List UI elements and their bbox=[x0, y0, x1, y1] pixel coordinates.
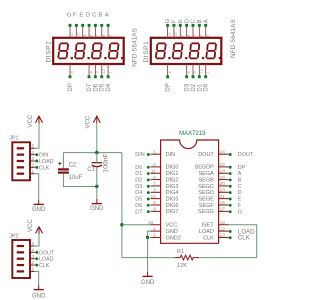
svg-text:JP1: JP1 bbox=[9, 136, 18, 142]
svg-text:12: 12 bbox=[200, 69, 204, 73]
svg-text:SEGE: SEGE bbox=[199, 196, 215, 202]
svg-text:SEGB: SEGB bbox=[199, 177, 215, 183]
svg-text:8: 8 bbox=[187, 71, 191, 73]
wire GND junction down to ground bbox=[147, 237, 149, 271]
pin 23 of MAX7219 (stub, dot, number, net label D) bbox=[219, 188, 242, 197]
svg-text:D4: D4 bbox=[106, 83, 112, 91]
pin 4 GND of MAX7219 (stub and number) bbox=[151, 226, 161, 232]
svg-text:100nF: 100nF bbox=[102, 153, 109, 172]
svg-text:D1: D1 bbox=[135, 171, 142, 177]
svg-text:8: 8 bbox=[89, 34, 93, 36]
DISP1 segment pin F (wire, pad, net label F, pin 10) bbox=[172, 19, 179, 38]
svg-text:1: 1 bbox=[32, 267, 35, 273]
svg-text:5: 5 bbox=[206, 34, 210, 36]
7-segment display DISP1 bbox=[151, 38, 222, 64]
svg-text:15: 15 bbox=[220, 200, 226, 206]
svg-text:1: 1 bbox=[206, 71, 210, 73]
DISP2 segment pin G (wire, pad, net label G, pin 11) bbox=[67, 12, 75, 37]
node LOAD at JP2 (wire stub, dot, net label) bbox=[35, 257, 54, 263]
svg-text:VCC: VCC bbox=[166, 223, 178, 229]
svg-text:E: E bbox=[178, 19, 184, 23]
svg-text:5: 5 bbox=[32, 241, 35, 247]
7-segment display DISP2 bbox=[53, 38, 124, 64]
svg-text:B: B bbox=[98, 12, 102, 18]
svg-text:B: B bbox=[197, 19, 203, 23]
svg-text:D6: D6 bbox=[93, 83, 99, 91]
svg-text:D5: D5 bbox=[100, 83, 106, 91]
svg-text:4: 4 bbox=[153, 226, 156, 232]
svg-text:DOUT: DOUT bbox=[39, 250, 55, 256]
svg-text:DISP1: DISP1 bbox=[143, 41, 150, 63]
DISP2 pin DP (wire, pad, net label DP, pin 6) bbox=[68, 64, 74, 92]
wire C2 top lead bbox=[62, 153, 64, 169]
wire C1 bottom lead bbox=[96, 167, 98, 186]
pin 12 LOAD of MAX7219 (stub, dot, number, net label LOAD) bbox=[219, 226, 256, 235]
svg-text:1: 1 bbox=[153, 149, 156, 155]
MAX7219 left pin names (DIN DIG0-DIG7 VCC GND GND2) bbox=[166, 152, 181, 241]
svg-text:2: 2 bbox=[153, 162, 156, 168]
power VCC (above JP2) bbox=[28, 219, 43, 234]
pin 13 CLK of MAX7219 (stub, dot, number, net label CLK) bbox=[219, 233, 251, 242]
DISP2 segment pin C (wire, pad, net label C, pin 7) bbox=[92, 12, 100, 37]
svg-text:1: 1 bbox=[32, 169, 35, 175]
pin 15 of MAX7219 (stub, dot, number, net label F) bbox=[219, 200, 242, 209]
pin 20 of MAX7219 (stub, dot, number, net label C) bbox=[219, 181, 242, 190]
svg-text:C2: C2 bbox=[69, 163, 77, 169]
DISP1 pin D2 (wire, pad, net label D2, pin 9) bbox=[191, 64, 197, 92]
svg-text:6: 6 bbox=[200, 34, 204, 36]
svg-text:CLK: CLK bbox=[203, 235, 214, 241]
pin 11 D1 of MAX7219 (stub, dot, number, net label D1) bbox=[135, 168, 160, 177]
svg-text:23: 23 bbox=[220, 188, 226, 194]
svg-text:SEGDP: SEGDP bbox=[195, 165, 215, 171]
junction GND pins 4 and 9 bbox=[146, 236, 149, 239]
wire JP1 pin 1 to GND bbox=[35, 174, 39, 200]
svg-text:SEGD: SEGD bbox=[198, 190, 214, 196]
wire VCC rail right corner down to R1 row bbox=[121, 153, 123, 258]
svg-text:LOAD: LOAD bbox=[39, 257, 54, 263]
svg-text:DIN: DIN bbox=[166, 152, 176, 158]
svg-text:DIN: DIN bbox=[135, 152, 144, 158]
svg-text:VCC: VCC bbox=[28, 219, 34, 232]
svg-text:F: F bbox=[73, 12, 77, 18]
svg-text:C: C bbox=[191, 19, 197, 23]
capacitor C1 (top plate and curved plate) bbox=[92, 163, 103, 167]
svg-text:D6: D6 bbox=[135, 203, 142, 209]
svg-text:A: A bbox=[203, 19, 209, 23]
svg-text:5: 5 bbox=[108, 34, 112, 36]
svg-text:LOAD: LOAD bbox=[199, 229, 214, 235]
svg-text:DIG6: DIG6 bbox=[166, 203, 179, 209]
svg-text:16: 16 bbox=[220, 175, 226, 181]
svg-text:17: 17 bbox=[220, 207, 226, 213]
DISP1 segment pin G (wire, pad, net label G, pin 11) bbox=[165, 18, 172, 38]
svg-text:A: A bbox=[105, 12, 109, 18]
svg-text:21: 21 bbox=[220, 194, 226, 200]
DISP2 segment pin E (wire, pad, net label E, pin 9) bbox=[79, 12, 87, 37]
DISP1 segment pin E (wire, pad, net label E, pin 9) bbox=[178, 19, 185, 38]
svg-text:7: 7 bbox=[193, 34, 197, 36]
svg-text:DOUT: DOUT bbox=[198, 152, 214, 158]
svg-text:11: 11 bbox=[151, 168, 156, 174]
wire VCC rail (C2 to right corner) bbox=[63, 152, 122, 154]
svg-text:NFD-5641AS: NFD-5641AS bbox=[230, 19, 237, 58]
wire VCC to MAX7219 pin 19 bbox=[122, 224, 151, 226]
svg-text:DIG7: DIG7 bbox=[166, 209, 179, 215]
svg-text:DIG1: DIG1 bbox=[166, 171, 179, 177]
svg-text:DIG4: DIG4 bbox=[166, 190, 179, 196]
pin 19 VCC of MAX7219 (stub and number) bbox=[148, 220, 161, 226]
svg-text:D5: D5 bbox=[135, 197, 142, 203]
svg-text:LOAD: LOAD bbox=[39, 159, 54, 165]
pin 9 GND2 of MAX7219 (stub and number) bbox=[151, 233, 161, 239]
connector JP2 bbox=[12, 240, 30, 278]
svg-text:DP: DP bbox=[238, 165, 246, 171]
pin 7 D3 of MAX7219 (stub, dot, number, net label D3) bbox=[135, 181, 160, 190]
DISP2 segment pin D (wire, pad, net label D, pin 8) bbox=[86, 12, 94, 37]
wire GND node down bbox=[96, 187, 98, 200]
svg-text:10: 10 bbox=[77, 32, 81, 36]
svg-text:GND: GND bbox=[32, 207, 46, 213]
svg-text:D2: D2 bbox=[191, 83, 197, 91]
svg-text:D7: D7 bbox=[135, 209, 142, 215]
pin 6 D2 of MAX7219 (stub, dot, number, net label D2) bbox=[135, 175, 160, 184]
pin 5 D6 of MAX7219 (stub, dot, number, net label D6) bbox=[135, 200, 160, 209]
DISP2 pin D7 (wire, pad, net label D7, pin 8) bbox=[87, 64, 93, 92]
pin 1 DIN of MAX7219 (stub, dot, number, net label DIN) bbox=[135, 149, 160, 158]
capacitor C2 (polarized, plus sign) bbox=[58, 162, 69, 174]
JP2 pin stubs and pin numbers 5..1 bbox=[30, 241, 35, 272]
svg-text:9: 9 bbox=[153, 233, 156, 239]
svg-text:D3: D3 bbox=[185, 83, 191, 91]
svg-text:CLK: CLK bbox=[238, 235, 251, 242]
svg-text:A: A bbox=[238, 171, 242, 177]
MAX7219 right pin names (DOUT SEGDP SEGA-SEGG ISET LOAD CLK) bbox=[195, 152, 215, 241]
svg-text:6: 6 bbox=[153, 175, 156, 181]
junction VCC rail at C1 bbox=[95, 151, 98, 154]
node DOUT at JP2 (wire stub, dot, net label) bbox=[35, 250, 55, 256]
wire JP1 pin 5 to VCC bbox=[35, 123, 39, 148]
svg-text:6: 6 bbox=[70, 71, 74, 73]
ground GND (below C1) bbox=[90, 199, 104, 212]
svg-text:10: 10 bbox=[150, 194, 156, 200]
svg-text:2: 2 bbox=[32, 260, 35, 266]
DISP2 segment pin B (wire, pad, net label B, pin 6) bbox=[98, 12, 106, 37]
svg-text:G: G bbox=[165, 18, 171, 23]
svg-text:E: E bbox=[238, 197, 242, 203]
ground GND (below JP1) bbox=[32, 200, 46, 213]
svg-text:VCC: VCC bbox=[85, 115, 91, 128]
svg-text:9: 9 bbox=[83, 34, 87, 36]
svg-text:CLK: CLK bbox=[39, 165, 50, 171]
svg-text:12: 12 bbox=[102, 69, 106, 73]
svg-text:SEGF: SEGF bbox=[199, 203, 215, 209]
wire VCC symbol to rail bbox=[96, 123, 98, 152]
svg-text:12: 12 bbox=[220, 226, 226, 232]
power VCC (above JP1) bbox=[28, 114, 43, 127]
svg-text:11: 11 bbox=[168, 33, 172, 37]
svg-text:5: 5 bbox=[153, 200, 156, 206]
DISP1 segment pin C (wire, pad, net label C, pin 7) bbox=[191, 19, 198, 38]
svg-text:R1: R1 bbox=[177, 249, 184, 255]
svg-text:20: 20 bbox=[220, 181, 226, 187]
svg-text:D0: D0 bbox=[204, 83, 210, 91]
svg-text:22: 22 bbox=[220, 162, 226, 168]
node DIN at JP1 (wire stub, dot, net label) bbox=[35, 153, 49, 159]
wire JP2 pin 1 to GND bbox=[35, 271, 39, 285]
wire MAX7219 pin 4 to GND junction bbox=[148, 231, 151, 237]
svg-text:5: 5 bbox=[32, 143, 35, 149]
pin 16 of MAX7219 (stub, dot, number, net label B) bbox=[219, 175, 242, 184]
svg-text:8: 8 bbox=[89, 71, 93, 73]
svg-text:SEGA: SEGA bbox=[199, 171, 215, 177]
pin 24 of MAX7219 (stub, dot, number, net label DOUT) bbox=[219, 149, 254, 158]
svg-text:6: 6 bbox=[102, 34, 106, 36]
svg-text:C: C bbox=[92, 12, 96, 18]
svg-text:SEGG: SEGG bbox=[198, 209, 214, 215]
svg-text:8: 8 bbox=[187, 34, 191, 36]
pin 18 ISET of MAX7219 (stub and number) bbox=[219, 220, 229, 226]
svg-text:7: 7 bbox=[96, 34, 100, 36]
svg-text:1: 1 bbox=[108, 71, 112, 73]
svg-text:G: G bbox=[67, 12, 72, 18]
resistor R1 (zigzag and stubs) bbox=[174, 255, 199, 260]
svg-text:3: 3 bbox=[153, 188, 156, 194]
svg-text:D: D bbox=[238, 190, 242, 196]
svg-text:JP2: JP2 bbox=[9, 233, 18, 239]
svg-text:14: 14 bbox=[220, 168, 226, 174]
svg-text:F: F bbox=[172, 19, 178, 23]
svg-text:D7: D7 bbox=[87, 83, 93, 91]
svg-text:D4: D4 bbox=[135, 190, 142, 196]
pin 14 of MAX7219 (stub, dot, number, net label A) bbox=[219, 168, 242, 177]
svg-text:10uF: 10uF bbox=[69, 175, 83, 181]
pin 17 of MAX7219 (stub, dot, number, net label G) bbox=[219, 207, 242, 216]
svg-text:2: 2 bbox=[32, 162, 35, 168]
svg-text:GND: GND bbox=[90, 206, 104, 212]
pin 10 D5 of MAX7219 (stub, dot, number, net label D5) bbox=[135, 194, 160, 203]
svg-text:SEGC: SEGC bbox=[198, 184, 214, 190]
DISP2 pin D4 (wire, pad, net label D4, pin 1) bbox=[106, 64, 112, 92]
pin 21 of MAX7219 (stub, dot, number, net label E) bbox=[219, 194, 242, 203]
junction VCC at MAX7219 pin 19 branch bbox=[120, 223, 123, 226]
svg-text:D2: D2 bbox=[135, 178, 142, 184]
svg-text:E: E bbox=[79, 12, 83, 18]
svg-text:19: 19 bbox=[148, 220, 154, 226]
svg-text:13: 13 bbox=[220, 233, 226, 239]
svg-text:DP: DP bbox=[68, 83, 74, 91]
svg-text:D3: D3 bbox=[135, 184, 142, 190]
svg-text:G: G bbox=[238, 209, 242, 215]
svg-text:11: 11 bbox=[70, 33, 74, 37]
svg-text:DOUT: DOUT bbox=[238, 152, 254, 158]
pin 2 D0 of MAX7219 (stub, dot, number, net label D0) bbox=[135, 162, 160, 171]
power VCC (above C1) bbox=[85, 115, 100, 128]
ground GND (below MAX7219) bbox=[141, 272, 155, 286]
svg-text:9: 9 bbox=[181, 34, 185, 36]
node CLK at JP1 (wire stub, dot, net label) bbox=[35, 165, 50, 171]
JP1 pin stubs and pin numbers 5..1 bbox=[30, 143, 35, 174]
svg-text:9: 9 bbox=[193, 71, 197, 73]
op-amp/driver IC U1 MAX7219 body with notch bbox=[161, 140, 219, 243]
DISP2 pin D6 (wire, pad, net label D6, pin 9) bbox=[93, 64, 99, 92]
ground GND (below JP2) bbox=[32, 285, 46, 299]
svg-text:MAX7219: MAX7219 bbox=[179, 131, 206, 137]
svg-text:DIG3: DIG3 bbox=[166, 184, 179, 190]
junction GND node of C1 and C2 bbox=[95, 185, 98, 188]
svg-text:GND2: GND2 bbox=[166, 235, 181, 241]
svg-text:6: 6 bbox=[168, 71, 172, 73]
svg-text:3: 3 bbox=[32, 156, 35, 162]
svg-text:GND: GND bbox=[141, 280, 155, 286]
DISP1 segment pin D (wire, pad, net label D, pin 8) bbox=[184, 19, 191, 38]
svg-text:ISET: ISET bbox=[202, 223, 215, 229]
svg-text:DISP2: DISP2 bbox=[45, 41, 52, 63]
svg-text:D: D bbox=[86, 12, 90, 18]
svg-text:B: B bbox=[238, 178, 242, 184]
svg-text:GND: GND bbox=[166, 229, 178, 235]
node CLK at JP2 (wire stub, dot, net label) bbox=[35, 263, 50, 269]
svg-text:D0: D0 bbox=[135, 165, 142, 171]
svg-text:3: 3 bbox=[32, 254, 35, 260]
svg-text:DIN: DIN bbox=[39, 153, 48, 159]
svg-text:D: D bbox=[184, 19, 190, 23]
svg-text:8: 8 bbox=[153, 207, 156, 213]
wire JP2 pin 5 to VCC bbox=[35, 234, 39, 246]
wire ISET pin 18 right and down to R1 bbox=[229, 225, 257, 258]
DISP1 segment pin B (wire, pad, net label B, pin 6) bbox=[197, 19, 204, 38]
node LOAD at JP1 (wire stub, dot, net label) bbox=[35, 159, 54, 165]
svg-text:24: 24 bbox=[220, 149, 226, 155]
svg-text:4: 4 bbox=[32, 150, 35, 156]
DISP2 segment pin A (wire, pad, net label A, pin 5) bbox=[105, 12, 113, 37]
svg-text:NFD-5641AS: NFD-5641AS bbox=[131, 28, 138, 67]
svg-text:VCC: VCC bbox=[28, 114, 34, 127]
svg-text:GND: GND bbox=[32, 293, 46, 299]
wire C1 top lead bbox=[96, 153, 98, 163]
connector JP1 bbox=[12, 142, 30, 180]
svg-text:7: 7 bbox=[153, 181, 156, 187]
svg-text:DIG2: DIG2 bbox=[166, 177, 179, 183]
pin 8 D7 of MAX7219 (stub, dot, number, net label D7) bbox=[135, 207, 160, 216]
svg-text:DIG5: DIG5 bbox=[166, 196, 179, 202]
svg-text:10: 10 bbox=[174, 32, 178, 36]
wire C2 bottom lead to GND node bbox=[63, 174, 96, 187]
pin 22 of MAX7219 (stub, dot, number, net label DP) bbox=[219, 162, 246, 171]
svg-text:C: C bbox=[238, 184, 242, 190]
pin 3 D4 of MAX7219 (stub, dot, number, net label D4) bbox=[135, 188, 160, 197]
svg-text:DP: DP bbox=[166, 83, 172, 91]
svg-text:4: 4 bbox=[32, 247, 35, 253]
svg-text:C1: C1 bbox=[87, 167, 95, 173]
wire VCC row to R1 left lead bbox=[122, 257, 174, 259]
DISP1 pin D3 (wire, pad, net label D3, pin 8) bbox=[185, 64, 191, 92]
DISP2 segment pin F (wire, pad, net label F, pin 10) bbox=[73, 12, 81, 37]
svg-text:CLK: CLK bbox=[39, 263, 50, 269]
svg-text:D1: D1 bbox=[197, 83, 203, 91]
DISP2 pin D5 (wire, pad, net label D5, pin 12) bbox=[100, 64, 106, 92]
svg-text:18: 18 bbox=[220, 220, 226, 226]
svg-text:9: 9 bbox=[96, 71, 100, 73]
svg-text:12K: 12K bbox=[177, 263, 187, 269]
DISP1 pin D0 (wire, pad, net label D0, pin 1) bbox=[204, 64, 210, 92]
DISP1 segment pin A (wire, pad, net label A, pin 5) bbox=[203, 19, 210, 38]
DISP1 pin DP (wire, pad, net label DP, pin 6) bbox=[166, 64, 172, 92]
svg-text:DIG0: DIG0 bbox=[166, 165, 179, 171]
DISP1 pin D1 (wire, pad, net label D1, pin 12) bbox=[197, 64, 203, 92]
wire R1 right lead to ISET wire bbox=[199, 257, 257, 259]
